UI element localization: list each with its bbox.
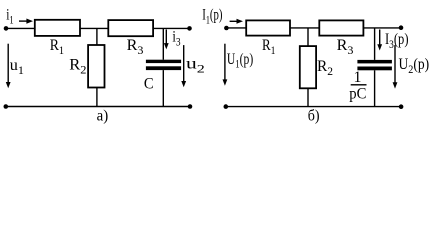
svg-text:pC: pC: [349, 86, 366, 103]
wire bottom rail (a): [6, 106, 190, 108]
wire R2 branch bottom (a): [96, 88, 98, 107]
current arrow I1(p): [230, 19, 243, 24]
voltage arrow u2: [181, 45, 186, 87]
wire top rail right segment (b): [363, 27, 401, 29]
voltage arrow U1(p): [223, 44, 228, 86]
resistor R1 (a): [35, 20, 80, 36]
wire bottom rail (b): [226, 106, 402, 108]
node top-left (b): [224, 26, 229, 31]
wire top rail middle segment (a): [80, 27, 108, 29]
capacitor 1/pC top plate: [357, 60, 392, 64]
svg-text:i1: i1: [6, 7, 14, 27]
svg-text:u2: u2: [186, 56, 205, 76]
wire capacitor branch top (b): [374, 28, 376, 60]
svg-text:I1(p): I1(p): [202, 7, 222, 27]
node bottom-right (a): [188, 104, 193, 109]
svg-text:б): б): [308, 107, 320, 124]
voltage arrow U2(p): [393, 45, 398, 89]
capacitor C top plate: [146, 60, 181, 63]
node bottom-left (a): [4, 104, 9, 109]
svg-text:R1: R1: [262, 37, 276, 57]
current arrow i3: [164, 30, 169, 50]
wire capacitor branch top (a): [162, 28, 164, 59]
wire top rail right segment (a): [153, 27, 189, 29]
svg-text:R1: R1: [50, 37, 64, 57]
wire capacitor branch bottom (b): [374, 70, 376, 106]
node top-right (a): [187, 26, 192, 31]
resistor R2 (a): [88, 45, 104, 88]
current arrow I3(p): [377, 30, 382, 51]
wire R2 branch top (a): [96, 28, 98, 45]
svg-text:R3: R3: [127, 37, 144, 57]
svg-text:1: 1: [354, 69, 362, 86]
svg-text:u1: u1: [10, 57, 24, 77]
node bottom-left (b): [224, 104, 229, 109]
svg-text:a): a): [97, 108, 109, 125]
svg-text:U1(p): U1(p): [227, 51, 253, 71]
wire top rail left segment (b): [226, 27, 246, 29]
label 1/pC fraction bar: [351, 84, 367, 86]
wire R2 branch top (b): [307, 28, 309, 46]
svg-text:C: C: [144, 76, 154, 93]
voltage arrow u1: [6, 44, 11, 89]
svg-text:R3: R3: [337, 37, 354, 57]
wire R2 branch bottom (b): [307, 88, 309, 106]
capacitor 1/pC bottom plate: [357, 67, 392, 71]
resistor R2 (b): [300, 46, 316, 88]
svg-text:U2(p): U2(p): [399, 56, 430, 76]
capacitor C bottom plate: [146, 66, 181, 70]
wire top rail left segment (a): [6, 27, 35, 29]
svg-text:i3: i3: [172, 29, 180, 49]
node top-right (b): [399, 25, 404, 30]
resistor R3 (a): [108, 20, 153, 36]
current arrow i1: [19, 19, 33, 24]
wire capacitor branch bottom (a): [162, 70, 164, 106]
svg-text:I3(p): I3(p): [385, 31, 409, 51]
wire top rail middle segment (b): [290, 27, 319, 29]
svg-text:R2: R2: [69, 56, 86, 76]
resistor R1 (b): [246, 20, 290, 35]
node bottom-right (b): [399, 104, 404, 109]
svg-text:R2: R2: [317, 58, 333, 78]
resistor R3 (b): [319, 20, 363, 35]
node top-left (a): [4, 26, 9, 31]
